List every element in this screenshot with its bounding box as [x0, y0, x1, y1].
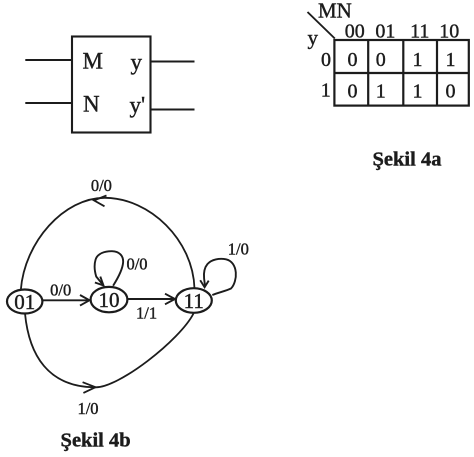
- svg-text:Şekil 4a: Şekil 4a: [373, 149, 442, 171]
- state 01 ellipse: [7, 290, 42, 314]
- svg-text:N: N: [83, 92, 100, 117]
- svg-text:0/0: 0/0: [50, 281, 71, 300]
- svg-text:y: y: [308, 26, 319, 50]
- svg-text:1: 1: [446, 49, 456, 71]
- svg-text:11: 11: [184, 289, 204, 313]
- transition 11 self-loop wire: [200, 259, 236, 295]
- transition 01 to 11 bottom arc wire: [25, 314, 194, 393]
- state 10 ellipse: [91, 287, 128, 312]
- svg-text:1/0: 1/0: [77, 399, 98, 418]
- svg-text:y: y: [131, 50, 143, 75]
- svg-text:1: 1: [321, 79, 331, 101]
- K-map header diagonal: [308, 12, 335, 39]
- svg-text:0: 0: [376, 49, 386, 71]
- svg-text:01: 01: [14, 290, 35, 314]
- wire output y': [151, 109, 195, 111]
- svg-text:MN: MN: [318, 0, 352, 23]
- block U1 (sequential circuit box): [72, 37, 151, 133]
- svg-text:10: 10: [99, 288, 120, 312]
- svg-text:0/0: 0/0: [91, 176, 112, 195]
- svg-text:0: 0: [348, 80, 358, 102]
- svg-text:0/0: 0/0: [126, 254, 147, 273]
- transition 01 to 10 wire: [42, 295, 89, 306]
- svg-text:Şekil 4b: Şekil 4b: [61, 430, 131, 452]
- transition 10 self-loop wire: [95, 251, 123, 286]
- svg-text:1: 1: [376, 80, 386, 102]
- svg-text:y': y': [130, 93, 146, 118]
- wire input N: [25, 102, 71, 104]
- svg-text:0: 0: [321, 49, 331, 71]
- svg-text:1/0: 1/0: [228, 240, 249, 259]
- svg-text:1/1: 1/1: [136, 304, 157, 323]
- svg-text:M: M: [83, 49, 103, 74]
- svg-text:0: 0: [348, 49, 358, 71]
- svg-text:1: 1: [413, 49, 423, 71]
- transition 10 to 11 wire: [128, 294, 176, 305]
- svg-text:1: 1: [413, 80, 423, 102]
- wire input M: [25, 59, 72, 61]
- K-map grid: [334, 40, 468, 106]
- state 11 ellipse: [176, 288, 212, 313]
- transition 11 to 01 top arc wire: [21, 196, 195, 291]
- wire output y: [151, 61, 195, 63]
- svg-text:0: 0: [446, 80, 456, 102]
